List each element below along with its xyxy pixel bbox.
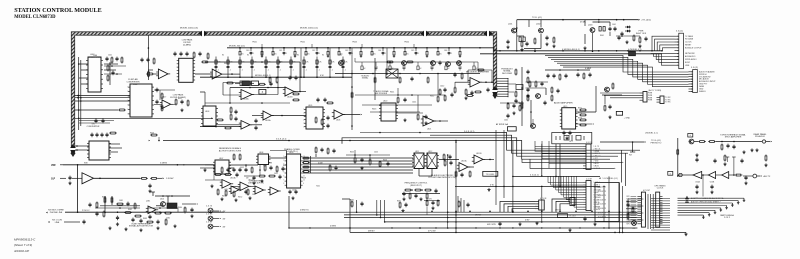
svg-text:TP403: TP403 <box>352 42 357 44</box>
bracket TX OUT <box>558 214 577 218</box>
svg-text:4W MV: 4W MV <box>368 231 375 233</box>
indicator CR3 <box>206 222 225 229</box>
wire bottom rail 3 <box>385 221 638 223</box>
ground row bl <box>108 226 142 231</box>
label TX/RX INTERFACE <box>720 133 746 138</box>
capacitor C55 <box>453 73 463 80</box>
resistor R72 <box>534 38 536 45</box>
box with X right <box>386 69 398 78</box>
resistor R61 <box>466 91 482 96</box>
wire riser 541 low <box>541 186 543 222</box>
wire bl net2 <box>100 205 163 207</box>
wire rx1 stub <box>64 220 86 225</box>
resistor R82 <box>604 105 612 112</box>
svg-text:11: 11 <box>303 175 305 177</box>
svg-text:C482: C482 <box>166 218 170 220</box>
svg-text:CONVERTER: CONVERTER <box>88 57 102 59</box>
labels bl <box>102 197 164 211</box>
svg-text:TP404: TP404 <box>404 42 409 44</box>
svg-text:R482: R482 <box>128 209 132 211</box>
wire to buffers <box>678 173 693 176</box>
capacitor C122 <box>131 218 142 224</box>
svg-text:MPN9056113-C: MPN9056113-C <box>14 238 36 242</box>
wire mic net <box>455 81 494 83</box>
svg-text:TP401: TP401 <box>252 42 257 44</box>
labels amp <box>563 106 582 120</box>
junction dots top rail <box>239 47 663 52</box>
wire filter net <box>148 70 212 74</box>
svg-text:.1: .1 <box>253 69 255 71</box>
capacitor C12 <box>155 100 158 105</box>
parts below U6 <box>506 103 521 119</box>
svg-text:4 MHZ: 4 MHZ <box>585 68 592 70</box>
capacitor C14 <box>94 119 104 124</box>
wire 4JL line <box>513 175 600 177</box>
parts zone3 <box>175 99 189 112</box>
wires to J6 <box>552 199 567 212</box>
note triangle A supply <box>686 197 724 201</box>
svg-text:.1: .1 <box>318 69 320 71</box>
svg-text:MODEL 4000 (4.3): MODEL 4000 (4.3) <box>180 28 198 30</box>
parts under detectors <box>214 173 239 178</box>
wire left col verticals <box>603 176 610 228</box>
labels above top rail <box>252 42 409 44</box>
svg-text:+ GND: + GND <box>624 117 631 119</box>
svg-text:Q402: Q402 <box>536 24 540 26</box>
wire band mid-right <box>355 61 478 63</box>
wire riser 512 low <box>512 190 514 212</box>
resistor R58 <box>399 77 429 84</box>
svg-text:4 MV: 4 MV <box>525 219 530 221</box>
svg-text:Y401: Y401 <box>316 186 320 188</box>
wires fan from shield decoder <box>497 78 516 97</box>
svg-text:R458: R458 <box>302 178 306 180</box>
wire out arrow <box>740 140 772 143</box>
wire iface net <box>694 141 740 143</box>
capacitor group 2 <box>576 73 591 80</box>
svg-text:.1: .1 <box>217 69 219 71</box>
svg-text:AUDIO AMPLIFIER: AUDIO AMPLIFIER <box>554 101 573 104</box>
parts mesh mid-right <box>397 87 456 125</box>
op-amp A22 <box>238 182 251 191</box>
label TX JL <box>532 17 542 19</box>
svg-text:O.P: O.P <box>51 177 56 180</box>
wire tr net <box>517 34 587 50</box>
wire PLL mesh <box>205 165 261 180</box>
parts amp below <box>562 131 571 140</box>
svg-text:C40: C40 <box>246 50 249 52</box>
wire fan to J1 lower <box>651 54 675 66</box>
label TX AUDIO MULTIPLEXER <box>373 90 388 95</box>
label 4 MHZ rail <box>330 226 337 228</box>
wire mesh U1 right <box>104 65 126 75</box>
svg-text:A SUPPLY VOLTAGE AT ALL SHEET: A SUPPLY VOLTAGE AT ALL SHEET A <box>691 197 724 200</box>
svg-text:7 GND: 7 GND <box>594 161 600 163</box>
wire x205 vert <box>200 92 205 106</box>
capacitor C31 <box>68 176 71 185</box>
resistor stack right of PLL <box>302 157 310 172</box>
label 5.6 JL right <box>464 131 475 133</box>
wire mesh line y103 <box>205 88 290 104</box>
resistor R60 <box>258 82 273 87</box>
svg-text:C43: C43 <box>345 50 348 52</box>
label REFERENCE SIGNALS ACTIVITY DETECTORS <box>219 147 242 152</box>
label S/N <box>84 162 88 164</box>
wire bus nested 1 <box>450 133 640 151</box>
capacitor C104 <box>695 185 713 190</box>
component columns above mid rail <box>215 57 349 78</box>
svg-text:C44: C44 <box>378 50 381 52</box>
decoder component column <box>514 67 529 126</box>
svg-text:BUS ACK OUTPUT: BUS ACK OUTPUT <box>685 46 702 49</box>
mesh zone mid-right wires <box>355 94 445 112</box>
capacitor below PLL <box>288 190 297 200</box>
component box K2 <box>616 111 622 115</box>
svg-text:NETWORK: NETWORK <box>685 53 695 55</box>
wires to J3 <box>600 93 640 98</box>
wire freq net <box>402 189 440 193</box>
wire verticals band3 <box>355 58 478 70</box>
svg-text:5 JL MODEL (4.1): 5 JL MODEL (4.1) <box>603 178 618 180</box>
svg-text:U408: U408 <box>259 152 263 154</box>
op-amp A6 <box>283 87 296 96</box>
node VDF input label <box>51 164 63 167</box>
IC U8 <box>201 106 218 126</box>
label LOW PASS FILTER <box>182 39 193 47</box>
svg-text:MODEL 400 (4.1): MODEL 400 (4.1) <box>229 46 245 48</box>
svg-text:LINE: LINE <box>55 222 60 224</box>
svg-text:U407: U407 <box>219 158 223 160</box>
wire pll net1 <box>205 164 258 167</box>
capacitor C15 <box>140 58 155 65</box>
svg-text:C451: C451 <box>274 173 278 175</box>
connector strip C2 <box>583 181 602 212</box>
indicator CR2 <box>206 214 225 221</box>
svg-text:5.6 JL (4.1): 5.6 JL (4.1) <box>276 139 287 141</box>
wire bottom rail 4 <box>289 227 637 229</box>
svg-text:U404B: U404B <box>287 97 293 99</box>
svg-text:TX LEVEL: TX LEVEL <box>486 174 495 176</box>
svg-text:5 JL (1): 5 JL (1) <box>676 30 683 32</box>
resistor R96 <box>444 160 453 167</box>
svg-text:5.6M: 5.6M <box>318 163 323 165</box>
svg-text:5 MIC LO: 5 MIC LO <box>594 156 602 158</box>
op-amp A24 <box>268 187 281 195</box>
parts at bus line start <box>149 133 160 142</box>
diode D1 <box>625 26 631 29</box>
resistor R55 <box>326 102 334 104</box>
svg-text:AUX TX: AUX TX <box>764 175 772 178</box>
svg-text:R472: R472 <box>578 113 582 115</box>
shield bus border (thick hatched wire) <box>73 34 495 154</box>
arrow rail end label 2TL <box>638 19 651 22</box>
label 4W MTD <box>487 224 497 226</box>
wire vert option2 <box>559 144 561 187</box>
transistor Q12 <box>538 28 543 33</box>
label 12-BIT A/D CONVERTER <box>126 78 140 83</box>
label AT SPKR GA <box>496 123 508 126</box>
svg-text:4 W: 4 W <box>320 75 324 77</box>
wires from shield to U2 <box>75 95 130 99</box>
crystal Y1 <box>235 81 254 86</box>
title text <box>14 8 101 14</box>
svg-text:6 PTT: 6 PTT <box>594 158 598 160</box>
shield end arrow right <box>492 86 498 99</box>
labels low batt <box>222 194 255 199</box>
op-amp A21 <box>220 180 233 189</box>
capacitor row pll <box>232 167 253 174</box>
svg-text:R491: R491 <box>397 201 401 203</box>
svg-text:C452: C452 <box>240 167 244 169</box>
resistor R12 <box>161 105 163 112</box>
label 4W MV <box>368 231 375 233</box>
svg-text:LINE: LINE <box>685 65 690 67</box>
resistor R43 <box>146 73 154 75</box>
labels above columns <box>222 55 342 57</box>
component box K51 black <box>167 203 177 209</box>
svg-text:BUSY: BUSY <box>685 62 691 64</box>
svg-text:.1: .1 <box>305 69 307 71</box>
svg-text:U416: U416 <box>160 199 164 201</box>
wire staircase to C1 <box>535 141 583 168</box>
wire long lower <box>75 117 213 119</box>
transistor Q11 <box>511 28 516 33</box>
wire vert 447 <box>447 154 449 228</box>
shield label left <box>180 28 198 30</box>
svg-text:R443: R443 <box>372 109 376 111</box>
svg-text:14: 14 <box>303 164 305 166</box>
resistor R54 <box>292 99 300 101</box>
svg-text:RX DATA: RX DATA <box>685 38 694 41</box>
wire below U6 <box>500 102 524 104</box>
transistor Q13 <box>590 28 595 33</box>
wire ups verticals <box>622 150 626 186</box>
wire main top rail <box>227 48 662 51</box>
node O.P input label <box>51 177 66 180</box>
wire arrow 1.8KHZ <box>158 178 174 181</box>
notes legend box <box>595 183 619 222</box>
svg-text:SHUT OFF: SHUT OFF <box>636 33 647 35</box>
svg-text:R455: R455 <box>350 152 354 154</box>
buffer B1 <box>693 172 702 184</box>
wire shield to resistor R13 <box>75 109 118 111</box>
svg-text:STATION CONTROL MODULE: STATION CONTROL MODULE <box>14 8 101 14</box>
svg-text:TX OUT: TX OUT <box>569 216 577 218</box>
resistor network right of U1 <box>107 62 115 85</box>
caps above buffers <box>695 153 729 163</box>
svg-text:( MODEL 4.1 ): ( MODEL 4.1 ) <box>645 132 658 134</box>
parts cluster bottom mid1 <box>397 201 408 213</box>
buffer B2 <box>708 172 715 184</box>
wires to J5 <box>500 202 535 213</box>
svg-text:C462: C462 <box>504 120 508 122</box>
capacitor row above U3 <box>90 133 108 138</box>
svg-text:C45: C45 <box>411 50 414 52</box>
wire TX JL arrow <box>600 140 662 144</box>
svg-text:C41: C41 <box>279 50 282 52</box>
wire b1-b2 <box>702 174 709 176</box>
svg-text:SPKR AUDIO: SPKR AUDIO <box>685 58 697 61</box>
resistor R101 <box>698 141 706 143</box>
svg-text:5 JL RX: 5 JL RX <box>206 214 213 216</box>
mic amp feedback loop <box>468 69 493 83</box>
resistor R15 <box>148 71 150 78</box>
svg-text:R471: R471 <box>578 108 582 110</box>
svg-text:4 MHZ: 4 MHZ <box>330 226 337 228</box>
svg-text:2 LINE 2: 2 LINE 2 <box>594 185 600 187</box>
parts dpot <box>443 154 471 178</box>
shield label mid <box>300 28 318 30</box>
parts freq2 <box>409 193 428 201</box>
resistor stack 440 <box>439 89 454 102</box>
svg-text:5 JL (2): 5 JL (2) <box>691 67 698 69</box>
resistor R53 <box>292 93 300 95</box>
svg-text:RX AUDIO: RX AUDIO <box>755 135 765 138</box>
op-amp A10 mic amplifier <box>468 78 482 88</box>
wire vert 310 <box>310 156 312 173</box>
wire third U2 line <box>75 100 130 102</box>
wire out circle <box>743 174 771 178</box>
tick marks U2 pins <box>127 87 128 116</box>
capacitor C11 <box>155 88 158 93</box>
wire below left <box>79 121 114 124</box>
svg-text:.1: .1 <box>344 69 346 71</box>
wire net mid3 <box>294 62 306 92</box>
label 2.5V DC <box>82 210 90 212</box>
wire top-right rail <box>517 19 638 21</box>
connector J4 <box>657 96 672 104</box>
svg-text:.1: .1 <box>279 69 281 71</box>
resistor R42 <box>207 53 209 60</box>
wire staircase to J2 <box>545 55 689 86</box>
parts on rails <box>498 217 586 227</box>
svg-text:4 PL MT: 4 PL MT <box>643 190 651 192</box>
svg-text:U405A: U405A <box>265 119 271 122</box>
wire vert 512 <box>512 141 514 190</box>
svg-text:R456: R456 <box>383 160 387 162</box>
svg-text:R481: R481 <box>102 197 106 199</box>
transistor Q21 <box>604 87 609 92</box>
svg-text:C481: C481 <box>119 200 123 202</box>
op-amp A23 <box>253 186 266 194</box>
capacitor C111 <box>626 203 629 208</box>
wire bottom mid col <box>458 196 464 212</box>
svg-text:C461: C461 <box>612 24 616 26</box>
IC U14 dpot <box>412 153 426 169</box>
svg-text:2 TL (4/1): 2 TL (4/1) <box>642 20 651 22</box>
svg-text:4 JL MT: 4 JL MT <box>586 178 592 180</box>
label T/R CONVERTER <box>87 124 100 128</box>
connector J3 accessory <box>640 89 662 102</box>
wire stair extra3 <box>530 159 600 168</box>
svg-text:R452: R452 <box>238 197 242 199</box>
resistor row pll2 <box>217 189 248 198</box>
label PGM AUDIO SIGNAL DECODER <box>501 67 513 75</box>
svg-text:MODEL 4000 (4.1): MODEL 4000 (4.1) <box>300 28 318 30</box>
svg-text:SIGNAL: SIGNAL <box>362 76 369 79</box>
svg-text:TX DATA: TX DATA <box>685 35 693 38</box>
resistor row bl <box>124 212 152 220</box>
ground G98 <box>487 188 490 191</box>
parts right of U1 <box>105 55 123 64</box>
wire mid rail y77 <box>200 76 352 78</box>
resistor R102 <box>708 141 716 143</box>
svg-text:13: 13 <box>303 168 305 170</box>
labels bottom-left boost <box>119 200 182 220</box>
svg-text:.1: .1 <box>418 53 420 55</box>
labels pll extra2 <box>268 163 320 192</box>
resistor R59 <box>386 61 442 66</box>
capacitor C71 <box>506 40 509 45</box>
svg-text:SIGNAL AUTODETECTOR: SIGNAL AUTODETECTOR <box>129 225 154 228</box>
wire A3 out <box>224 73 240 75</box>
label 5.6KHZ <box>160 163 185 166</box>
svg-text:R4: R4 <box>322 55 324 57</box>
wire A8 long <box>200 126 241 128</box>
transistor Q7 <box>530 119 535 128</box>
resistor R71 <box>519 37 525 42</box>
wire bus nested 2 <box>430 135 628 153</box>
wire stubs P1 left <box>628 199 643 220</box>
parts topright extra2 <box>620 32 647 48</box>
wires between P1 strips <box>648 194 653 229</box>
ground G72 <box>625 40 628 43</box>
labels zone5 <box>350 152 387 162</box>
op-amp A27 <box>229 186 241 194</box>
wire audio net <box>545 69 590 71</box>
svg-text:U418: U418 <box>268 163 272 165</box>
label connector 5JL2 <box>691 67 698 69</box>
resistor R95 <box>329 165 338 172</box>
resistor R56 <box>216 119 232 129</box>
wire drop xtal <box>580 20 587 26</box>
svg-text:MODEL 400 (4.1): MODEL 400 (4.1) <box>255 75 271 77</box>
wire bl mesh <box>95 207 178 212</box>
resistor R74 <box>633 35 635 42</box>
svg-text:AUX AUDIO: AUX AUDIO <box>685 55 696 58</box>
vertical wire mid2 <box>374 58 376 100</box>
op-amp A2 <box>156 69 170 79</box>
capacitor C101 <box>732 145 735 150</box>
label mid rail <box>255 75 324 77</box>
svg-text:U404A: U404A <box>243 98 249 101</box>
svg-text:R446: R446 <box>150 133 154 135</box>
svg-text:5 JL MT: 5 JL MT <box>206 222 213 224</box>
wire drops cluster1 <box>516 20 541 52</box>
labels dpot <box>415 151 482 163</box>
resistor R123 <box>184 207 194 218</box>
resistor R107 <box>764 155 767 167</box>
op-amp A4 <box>239 90 254 100</box>
parts cluster bottom mid2 <box>426 199 439 210</box>
svg-text:4W TD: 4W TD <box>555 209 561 211</box>
capacitor C121 <box>116 216 119 226</box>
buffer B3 <box>722 172 729 179</box>
parts near 356 riser <box>350 200 364 208</box>
parts PLL boost 2 <box>258 175 282 183</box>
svg-text:TX JL (4.1): TX JL (4.1) <box>532 17 542 19</box>
label E-NET REFERENCE <box>129 223 154 227</box>
resistor R105 <box>723 155 726 166</box>
svg-text:C46: C46 <box>444 50 447 52</box>
IC U7 audio amplifier <box>560 108 578 129</box>
op-amp A31 <box>421 116 436 131</box>
svg-text:4W: 4W <box>223 218 226 220</box>
indicator CR1 <box>206 206 225 213</box>
svg-text:C442: C442 <box>440 86 444 88</box>
wire dpot net <box>439 159 494 167</box>
connector P1 ladder rungs <box>651 199 670 231</box>
